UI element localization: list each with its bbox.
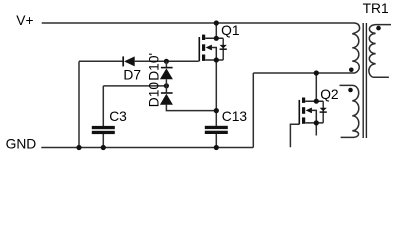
diode D7 bbox=[123, 56, 135, 66]
wire Q2 drain net horizontal bbox=[253, 72, 354, 74]
wire Q1 drain vertical bbox=[215, 23, 217, 38]
node junction dot GND C3 bbox=[101, 145, 106, 150]
wire C3 top to diode mid junction bbox=[103, 85, 166, 87]
svg-text:D10: D10 bbox=[147, 82, 162, 108]
transformer TR1 core bbox=[363, 23, 366, 138]
wire C3 riser bottom bbox=[102, 134, 104, 148]
wire D10 anode to Q1 source junction bbox=[166, 105, 216, 111]
svg-text:C3: C3 bbox=[109, 109, 127, 124]
wire GND riser to Q2 drain net bbox=[252, 73, 254, 148]
wire Q2 gate lead bbox=[290, 124, 299, 147]
node junction dot Q1 source / bottom wire bbox=[214, 108, 219, 113]
svg-text:Q1: Q1 bbox=[221, 23, 239, 38]
node junction dot GND C13 bbox=[214, 145, 219, 150]
transformer TR1 primary top winding bbox=[352, 23, 359, 73]
capacitor C13 bbox=[205, 126, 228, 134]
svg-text:TR1: TR1 bbox=[363, 1, 389, 16]
capacitor C3 bbox=[92, 126, 115, 134]
wire Q1 source vertical to C13 bbox=[215, 60, 217, 126]
transformer TR1 secondary winding phase dot bbox=[376, 26, 381, 31]
wire gate net D7 to Q1 gate bbox=[135, 60, 199, 62]
node junction dot Q2 drain net bbox=[314, 70, 319, 75]
node junction dot gate wire / D10 cathode bbox=[164, 59, 169, 64]
transformer TR1 secondary winding bbox=[369, 25, 391, 78]
wire gate net left segment bbox=[79, 60, 123, 62]
wire C3 riser top bbox=[102, 86, 104, 126]
transistor Q2 (N-MOSFET) bbox=[299, 98, 327, 126]
svg-text:C13: C13 bbox=[222, 109, 248, 124]
diode D10 (bottom) bbox=[160, 86, 173, 105]
node junction dot D10 mid / C3 bbox=[164, 83, 169, 88]
wire left riser (gate net to GND) bbox=[78, 61, 80, 147]
svg-text:D7: D7 bbox=[123, 67, 141, 82]
svg-text:V+: V+ bbox=[16, 13, 33, 28]
diode D10' (top) bbox=[160, 61, 173, 86]
wire C13 bottom lead bbox=[215, 134, 217, 148]
svg-text:GND: GND bbox=[6, 136, 37, 151]
wire GND rail bbox=[41, 147, 253, 149]
transistor Q1 (N-MOSFET) bbox=[199, 35, 227, 63]
svg-text:Q2: Q2 bbox=[320, 87, 338, 102]
transformer TR1 primary bottom winding bbox=[340, 85, 359, 137]
wire V+ rail bbox=[42, 22, 354, 24]
transformer TR1 primary bottom winding phase dot bbox=[348, 88, 353, 93]
node junction dot GND left riser bbox=[76, 145, 81, 150]
node junction dot V+/Q1 drain bbox=[214, 20, 219, 25]
svg-text:D10': D10' bbox=[147, 53, 162, 81]
wire Q2 drain vertical bbox=[315, 73, 317, 101]
transformer TR1 primary top winding phase dot bbox=[349, 68, 354, 73]
wire Q2 source lead bbox=[315, 123, 317, 136]
